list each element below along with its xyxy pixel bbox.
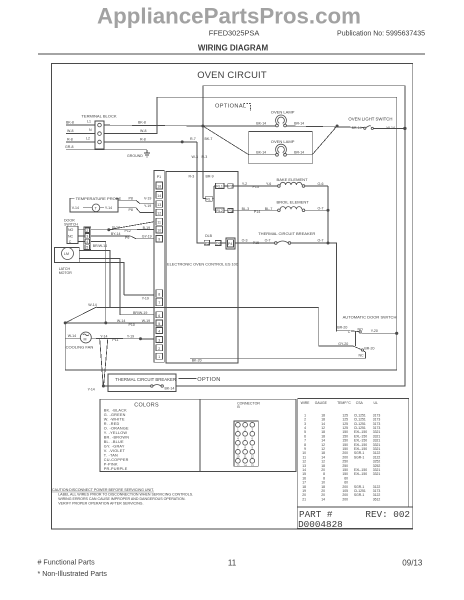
svg-text:P1: P1 bbox=[157, 175, 161, 179]
svg-text:R. -RED: R. -RED bbox=[104, 422, 120, 426]
wire R-8 out label bbox=[140, 137, 146, 141]
svg-text:R-8: R-8 bbox=[67, 137, 73, 141]
svg-text:6: 6 bbox=[158, 314, 160, 318]
connector P3 bbox=[228, 209, 241, 214]
header logo AppliancePartsPros.com bbox=[97, 4, 361, 29]
svg-text:FFED3025PSA: FFED3025PSA bbox=[209, 29, 260, 38]
svg-text:VERIFY PROPER OPERATION AFTER: VERIFY PROPER OPERATION AFTER SERVICING. bbox=[58, 501, 143, 505]
svg-text:7: 7 bbox=[237, 445, 239, 449]
automatic door lock switch bbox=[190, 315, 398, 359]
svg-text:P5: P5 bbox=[205, 241, 209, 245]
svg-text:GY-20: GY-20 bbox=[338, 342, 348, 346]
svg-text:6: 6 bbox=[252, 436, 254, 440]
svg-text:M: M bbox=[84, 338, 87, 342]
svg-text:P2: P2 bbox=[228, 185, 232, 189]
svg-text:O-7: O-7 bbox=[318, 206, 324, 210]
svg-text:CSA: CSA bbox=[356, 401, 364, 405]
wire diagonal to lower lamp left bbox=[203, 126, 249, 155]
svg-text:BK-7: BK-7 bbox=[205, 137, 213, 141]
svg-text:V-19: V-19 bbox=[144, 196, 151, 200]
wire W-8 neutral in bbox=[66, 129, 95, 134]
thermal circuit breaker lower box bbox=[103, 374, 176, 392]
svg-text:GROUND: GROUND bbox=[127, 154, 143, 158]
svg-text:O-7: O-7 bbox=[265, 239, 271, 243]
svg-text:Publication No: 5995637435: Publication No: 5995637435 bbox=[337, 31, 425, 38]
svg-text:G. -GREEN: G. -GREEN bbox=[104, 413, 126, 417]
svg-text:13: 13 bbox=[157, 203, 161, 207]
svg-text:BR-14: BR-14 bbox=[294, 121, 304, 125]
svg-text:BK-14: BK-14 bbox=[256, 121, 266, 125]
svg-text:L1: L1 bbox=[87, 120, 91, 124]
wire latch motor lower to vertical x120 bbox=[73, 259, 124, 315]
svg-text:R-3: R-3 bbox=[202, 155, 208, 159]
svg-text:DB: DB bbox=[216, 242, 222, 246]
svg-text:14: 14 bbox=[157, 194, 161, 198]
part number box bbox=[297, 507, 413, 530]
svg-text:BK. -BLACK: BK. -BLACK bbox=[104, 408, 127, 412]
svg-text:Y-14: Y-14 bbox=[100, 334, 107, 338]
temperature probe bbox=[70, 196, 121, 212]
svg-text:BAKE ELEMENT: BAKE ELEMENT bbox=[277, 177, 309, 182]
connector P1 bbox=[154, 171, 164, 363]
svg-text:O-7: O-7 bbox=[318, 239, 324, 243]
svg-text:8: 8 bbox=[158, 293, 160, 297]
wire Y-14 down to breaker bbox=[88, 338, 108, 391]
svg-text:MOTOR: MOTOR bbox=[59, 271, 73, 275]
svg-text:C: C bbox=[69, 240, 72, 244]
svg-text:R-7: R-7 bbox=[190, 137, 196, 141]
svg-text:2: 2 bbox=[86, 229, 88, 233]
svg-text:B-19: B-19 bbox=[143, 226, 151, 230]
svg-text:Y-20: Y-20 bbox=[371, 329, 378, 333]
svg-text:Y-19: Y-19 bbox=[142, 297, 149, 301]
wire gauge table bbox=[298, 398, 409, 507]
connector B pins bbox=[236, 422, 255, 467]
svg-text:3: 3 bbox=[86, 234, 88, 238]
svg-text:WIRE: WIRE bbox=[301, 401, 311, 405]
electronic oven control box U1 bbox=[166, 172, 239, 364]
svg-text:BK-8: BK-8 bbox=[138, 121, 146, 125]
wire BK line bus loop bbox=[104, 86, 405, 386]
wire elements bus vertical bbox=[327, 186, 337, 332]
svg-text:10: 10 bbox=[236, 454, 240, 458]
connector door switch plug bbox=[78, 227, 91, 250]
svg-text:3: 3 bbox=[252, 427, 254, 431]
svg-text:CU-COPPER: CU-COPPER bbox=[104, 458, 129, 462]
header publication number bbox=[337, 31, 425, 38]
svg-text:11: 11 bbox=[157, 221, 161, 225]
svg-text:11: 11 bbox=[228, 558, 237, 567]
latch motor bbox=[55, 248, 80, 275]
svg-text:4: 4 bbox=[237, 436, 239, 440]
svg-text:O-3: O-3 bbox=[242, 239, 248, 243]
svg-text:NC: NC bbox=[68, 234, 74, 238]
title WIRING DIAGRAM bbox=[198, 44, 269, 53]
svg-text:09/13: 09/13 bbox=[402, 558, 423, 567]
svg-text:B: B bbox=[237, 405, 240, 409]
svg-text:WIRING DIAGRAM: WIRING DIAGRAM bbox=[198, 44, 269, 53]
svg-text:O-6: O-6 bbox=[318, 182, 324, 186]
svg-text:3321: 3321 bbox=[373, 472, 381, 476]
svg-text:V. -VIOLET: V. -VIOLET bbox=[104, 449, 126, 453]
svg-text:D0004828: D0004828 bbox=[298, 519, 343, 530]
svg-text:P8: P8 bbox=[129, 196, 133, 200]
svg-text:9: 9 bbox=[158, 238, 160, 242]
svg-text:BL. -BLUE: BL. -BLUE bbox=[104, 440, 124, 444]
outer frame bbox=[52, 64, 413, 529]
svg-text:OPTION: OPTION bbox=[197, 377, 220, 383]
wire BK-8 line in bbox=[66, 121, 95, 126]
svg-text:OVEN CIRCUIT: OVEN CIRCUIT bbox=[197, 69, 267, 80]
svg-text:W-14: W-14 bbox=[88, 303, 96, 307]
wire BK-20 label bbox=[192, 359, 202, 363]
svg-text:V-14: V-14 bbox=[72, 206, 79, 210]
svg-text:AppliancePartsPros.com: AppliancePartsPros.com bbox=[97, 4, 361, 29]
wire BY-14 GY-19 to pin9 bbox=[91, 232, 154, 240]
svg-text:2: 2 bbox=[244, 427, 246, 431]
svg-text:8: 8 bbox=[244, 445, 246, 449]
svg-text:# Functional Parts: # Functional Parts bbox=[38, 559, 96, 567]
svg-text:B-14: B-14 bbox=[112, 226, 120, 230]
svg-text:SWITCH: SWITCH bbox=[64, 223, 78, 227]
svg-text:T: T bbox=[95, 206, 98, 210]
footer functional parts bbox=[38, 559, 108, 578]
svg-text:LABEL ALL WIRES PRIOR TO DISCO: LABEL ALL WIRES PRIOR TO DISCONNECTION W… bbox=[58, 492, 193, 496]
wire Y-19 to pin8 bbox=[124, 295, 154, 301]
svg-text:BK-14: BK-14 bbox=[256, 150, 266, 154]
wire neutral W bus loop bbox=[65, 97, 397, 370]
svg-text:BROIL ELEMENT: BROIL ELEMENT bbox=[277, 200, 310, 205]
svg-text:BR/W-14: BR/W-14 bbox=[93, 244, 107, 248]
relay RL1 bbox=[216, 183, 228, 188]
wire BK-8 out label bbox=[138, 121, 146, 125]
svg-text:5: 5 bbox=[86, 246, 88, 250]
svg-text:L2: L2 bbox=[86, 137, 90, 141]
svg-text:Y. -YELLOW: Y. -YELLOW bbox=[104, 431, 128, 435]
svg-text:BR-14: BR-14 bbox=[294, 150, 304, 154]
svg-text:BK-8: BK-8 bbox=[66, 121, 74, 125]
svg-text:W-14: W-14 bbox=[68, 334, 76, 338]
wire lamp row bbox=[203, 126, 364, 127]
svg-text:13: 13 bbox=[236, 463, 240, 467]
wire Y-19 probe to pin12 bbox=[118, 204, 154, 213]
svg-text:O. -ORANGE: O. -ORANGE bbox=[104, 426, 129, 430]
svg-text:3: 3 bbox=[158, 339, 160, 343]
svg-text:4: 4 bbox=[86, 240, 88, 244]
cooling fan motor bbox=[65, 332, 93, 350]
OPTION label bbox=[179, 377, 221, 383]
svg-text:P11: P11 bbox=[112, 338, 118, 342]
svg-text:W-14: W-14 bbox=[387, 126, 395, 130]
oven lamp lower bbox=[249, 139, 312, 156]
relay junction RL5 bbox=[203, 186, 216, 210]
svg-text:Y-19: Y-19 bbox=[144, 204, 151, 208]
oven lamp upper bbox=[256, 109, 304, 127]
svg-text:SGR-1: SGR-1 bbox=[354, 455, 364, 459]
svg-text:AUTOMATIC DOOR SWITCH: AUTOMATIC DOOR SWITCH bbox=[343, 315, 397, 320]
connector B box bbox=[200, 399, 296, 471]
svg-text:2: 2 bbox=[158, 347, 160, 351]
footer page number bbox=[228, 558, 237, 567]
svg-text:REV: 002: REV: 002 bbox=[365, 509, 410, 520]
svg-text:7: 7 bbox=[158, 301, 160, 305]
wire GY-20 to NC bbox=[97, 307, 354, 346]
svg-text:P8: P8 bbox=[129, 208, 133, 212]
svg-text:Y-6: Y-6 bbox=[266, 182, 271, 186]
header model number FFED3025PSA bbox=[209, 29, 260, 38]
svg-text:12: 12 bbox=[251, 454, 255, 458]
svg-text:W-14: W-14 bbox=[117, 319, 125, 323]
svg-text:NO: NO bbox=[358, 328, 364, 332]
OPTIONAL label bbox=[215, 104, 251, 112]
svg-text:15: 15 bbox=[251, 463, 255, 467]
svg-text:NC: NC bbox=[359, 354, 365, 358]
svg-text:Y-19: Y-19 bbox=[127, 334, 134, 338]
svg-text:OPTIONAL: OPTIONAL bbox=[215, 104, 247, 110]
svg-text:* Non-Illustrated Parts: * Non-Illustrated Parts bbox=[38, 570, 108, 578]
svg-text:12: 12 bbox=[157, 211, 161, 215]
svg-text:W-19: W-19 bbox=[142, 319, 150, 323]
svg-text:P-PINK: P-PINK bbox=[104, 462, 118, 466]
svg-text:BR-20: BR-20 bbox=[364, 347, 374, 351]
svg-text:LM: LM bbox=[64, 252, 69, 256]
svg-text:CONNECTOR: CONNECTOR bbox=[237, 401, 260, 405]
svg-text:THERMAL CIRCUIT BREAKER: THERMAL CIRCUIT BREAKER bbox=[258, 231, 315, 236]
oven light switch bbox=[348, 117, 406, 131]
svg-text:GY. -GRAY: GY. -GRAY bbox=[104, 444, 125, 448]
ground symbol bbox=[127, 150, 150, 158]
svg-text:W-8: W-8 bbox=[67, 129, 73, 133]
svg-text:GY-19: GY-19 bbox=[142, 235, 152, 239]
title OVEN CIRCUIT bbox=[197, 69, 267, 80]
wire diagonal from lower lamp right bbox=[312, 126, 337, 155]
svg-text:200: 200 bbox=[342, 497, 348, 501]
svg-text:BK-20: BK-20 bbox=[192, 359, 202, 363]
svg-text:OVEN LAMP: OVEN LAMP bbox=[271, 139, 295, 144]
svg-text:BR-20: BR-20 bbox=[337, 326, 347, 330]
wire Y-19 fan to pin3 bbox=[91, 334, 154, 342]
DLB relay row bbox=[204, 234, 241, 249]
thermal circuit breaker upper bbox=[241, 231, 328, 245]
svg-text:TEMP.°C: TEMP.°C bbox=[337, 401, 351, 405]
svg-text:9: 9 bbox=[252, 445, 254, 449]
wire W-19 to pin5 bbox=[65, 319, 154, 327]
svg-text:SGR-1: SGR-1 bbox=[354, 493, 364, 497]
svg-text:OVEN LIGHT SWITCH: OVEN LIGHT SWITCH bbox=[348, 117, 392, 122]
wire R-8 line2 in bbox=[66, 137, 95, 142]
svg-text:THERMAL CIRCUIT BREAKER: THERMAL CIRCUIT BREAKER bbox=[115, 377, 176, 382]
connector P2 bbox=[228, 184, 241, 189]
colors legend box bbox=[100, 399, 200, 471]
svg-text:RL1: RL1 bbox=[216, 185, 223, 189]
svg-text:11: 11 bbox=[244, 454, 247, 458]
svg-text:BR. -BROWN: BR. -BROWN bbox=[104, 435, 129, 439]
title underline bbox=[38, 53, 425, 55]
svg-text:COLORS: COLORS bbox=[134, 402, 159, 408]
svg-text:BR-9: BR-9 bbox=[206, 175, 214, 179]
svg-text:3612: 3612 bbox=[373, 497, 381, 501]
svg-text:N: N bbox=[89, 128, 92, 132]
svg-text:21: 21 bbox=[302, 497, 306, 501]
svg-text:T. -TAN: T. -TAN bbox=[104, 453, 118, 457]
svg-text:CAUTION:DISCONNECT POWER BEFOR: CAUTION:DISCONNECT POWER BEFORE SERVICIN… bbox=[52, 488, 154, 492]
svg-text:P3: P3 bbox=[228, 209, 232, 213]
svg-text:UL: UL bbox=[374, 401, 378, 405]
door switch S1 bbox=[64, 219, 78, 245]
svg-text:P4: P4 bbox=[228, 242, 232, 246]
svg-text:P10: P10 bbox=[129, 323, 135, 327]
svg-text:P9: P9 bbox=[125, 236, 129, 240]
svg-text:TERMINAL BLOCK: TERMINAL BLOCK bbox=[81, 114, 116, 119]
svg-text:BR/W-19: BR/W-19 bbox=[133, 311, 147, 315]
wire BR/W-14 down bbox=[91, 242, 107, 325]
svg-text:ELECTRONIC OVEN CONTROL ES 100: ELECTRONIC OVEN CONTROL ES 100 bbox=[167, 262, 239, 267]
svg-text:R-8: R-8 bbox=[140, 137, 146, 141]
svg-text:NO: NO bbox=[68, 228, 74, 232]
relay RL2 bbox=[216, 208, 228, 213]
svg-text:W-3: W-3 bbox=[192, 155, 198, 159]
svg-text:WIRING ERRORS CAN CAUSE IMPROP: WIRING ERRORS CAN CAUSE IMPROPER AND DAN… bbox=[58, 497, 185, 501]
svg-text:Y-2: Y-2 bbox=[242, 182, 247, 186]
wire R-8 to control bbox=[104, 141, 204, 243]
svg-text:4: 4 bbox=[158, 330, 160, 334]
svg-text:1: 1 bbox=[158, 355, 160, 359]
svg-text:DLB: DLB bbox=[205, 234, 213, 238]
svg-text:BY-14: BY-14 bbox=[111, 232, 121, 236]
wire latch motor to vertical x110 bbox=[79, 251, 110, 308]
footer date bbox=[402, 558, 423, 567]
svg-text:Y-14: Y-14 bbox=[88, 388, 95, 392]
svg-text:10: 10 bbox=[157, 229, 161, 233]
node lamp wire junction right bbox=[336, 125, 338, 127]
svg-text:14: 14 bbox=[244, 463, 248, 467]
svg-text:R-3: R-3 bbox=[189, 175, 195, 179]
wire GR-8 ground in bbox=[65, 145, 147, 150]
wire W-8 out label bbox=[140, 129, 146, 133]
wire V-19 probe to pin13 bbox=[118, 196, 154, 204]
svg-text:EXL-150: EXL-150 bbox=[354, 472, 367, 476]
svg-text:OVEN LAMP: OVEN LAMP bbox=[271, 109, 295, 114]
terminal block TB bbox=[81, 114, 116, 150]
svg-text:P12: P12 bbox=[125, 229, 131, 233]
svg-text:RL: RL bbox=[206, 197, 211, 201]
svg-text:W-8: W-8 bbox=[140, 129, 146, 133]
svg-text:5: 5 bbox=[244, 436, 246, 440]
svg-text:TEMPERATURE PROBE: TEMPERATURE PROBE bbox=[76, 196, 122, 201]
svg-text:PR-PURPLE: PR-PURPLE bbox=[104, 467, 128, 471]
wire W-14 diagonal bbox=[64, 303, 97, 324]
caution text bbox=[52, 488, 193, 506]
svg-text:18: 18 bbox=[157, 185, 161, 189]
wire B-14 B-19 to pin10 and pin11 bbox=[91, 222, 154, 233]
svg-text:W. -WHITE: W. -WHITE bbox=[104, 417, 125, 421]
svg-text:GR-8: GR-8 bbox=[65, 145, 74, 149]
svg-text:14: 14 bbox=[321, 497, 325, 501]
broil element bbox=[241, 200, 329, 214]
bake element bbox=[241, 177, 328, 189]
oven lamp lower box bbox=[249, 131, 312, 163]
wire BR/W-19 to pin6 bbox=[120, 311, 154, 315]
svg-text:Y-14: Y-14 bbox=[105, 206, 112, 210]
wire BK-7 vertical to relay junction bbox=[189, 126, 214, 199]
svg-text:BK-14: BK-14 bbox=[165, 387, 175, 391]
svg-text:1: 1 bbox=[237, 427, 239, 431]
svg-text:COOLING FAN: COOLING FAN bbox=[66, 345, 94, 350]
svg-text:RL2: RL2 bbox=[216, 209, 223, 213]
svg-text:5: 5 bbox=[158, 322, 160, 326]
svg-text:GAUGE: GAUGE bbox=[315, 401, 328, 405]
